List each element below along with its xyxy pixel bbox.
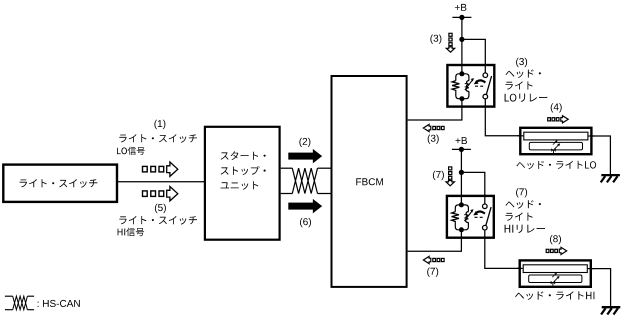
box: start-stop unit (スタート・ストップ・ユニット) — [205, 127, 280, 240]
label ライト・スイッチ (light switch) — [20, 179, 98, 188]
label (5) signal number — [155, 204, 166, 213]
lamp: headlight HI — [517, 260, 594, 286]
box: FBCM module — [332, 76, 407, 287]
label スタート・ストップ・ユニット (start stop unit) — [221, 151, 266, 160]
label (3) fuse number — [430, 35, 441, 44]
relay HI coil + contact internals — [452, 196, 492, 238]
wire +B down to LO relay coil — [461, 17, 463, 64]
label (3) ヘッド・ライトLOリレー (headlight LO relay) — [516, 58, 527, 67]
wire +B down to HI relay coil — [460, 149, 462, 195]
legend: HS-CAN twisted pair symbol — [5, 295, 13, 297]
signal flow arrow (2) unit to FBCM — [288, 153, 313, 160]
HS-CAN twisted pair bus: unit to FBCM — [281, 167, 293, 169]
signal flow arrow (8) to headlight HI — [546, 249, 549, 252]
node junction +B branch (LO) — [459, 37, 464, 42]
relay: headlight HI relay box — [447, 196, 494, 238]
wire +B branch to HI relay contact — [461, 172, 484, 195]
label ライト・スイッチ LO信号 (light switch LO signal) — [119, 134, 197, 143]
lamp: headlight LO — [518, 128, 595, 154]
fuse arrow (3) vertical — [449, 33, 452, 36]
+B power symbol (LO feed) — [455, 4, 467, 11]
signal flow arrow (1) light switch LO signal — [143, 166, 148, 172]
signal flow arrow (5) light switch HI signal — [143, 191, 148, 197]
relay: headlight LO relay box — [447, 65, 494, 107]
label (3) signal number — [428, 135, 439, 144]
wire light-switch to start-stop-unit — [117, 181, 205, 183]
label ヘッド・ライトLO (headlight LO) — [516, 161, 596, 169]
signal flow arrow (4) to headlight LO — [548, 118, 551, 121]
label (2) signal number — [299, 138, 310, 147]
label (7) ヘッド・ライトHIリレー (headlight HI relay) — [516, 188, 527, 197]
legend label : HS-CAN — [38, 300, 80, 307]
wire HI relay contact to headlight HI — [485, 238, 519, 268]
label (8) signal number — [550, 235, 561, 244]
wire +B branch to LO relay contact — [462, 39, 485, 64]
signal arrow (3) relay to FBCM — [423, 124, 430, 131]
label FBCM — [356, 178, 383, 185]
box: light switch (ライト・スイッチ) — [3, 165, 117, 202]
label (7) fuse number — [433, 171, 444, 180]
wire LO relay contact to headlight LO — [485, 107, 519, 136]
relay LO coil + contact internals — [452, 65, 492, 107]
ground (HI) — [601, 307, 620, 314]
wire headlight LO to ground — [593, 136, 611, 174]
+B power symbol (HI feed) — [456, 137, 468, 144]
wire LO relay coil return to FBCM — [408, 107, 462, 120]
node junction +B branch (HI) — [459, 170, 464, 175]
label (6) signal number — [300, 218, 311, 227]
ground (LO) — [601, 175, 620, 182]
wire HI relay coil return to FBCM — [408, 238, 462, 251]
fuse arrow (7) vertical — [449, 167, 452, 170]
label (7) signal number — [427, 268, 438, 277]
label ヘッド・ライトHI (headlight HI) — [515, 291, 594, 300]
signal arrow (7) relay to FBCM — [423, 256, 430, 263]
label (4) signal number — [551, 103, 562, 112]
label (1) signal number — [154, 120, 165, 129]
signal flow arrow (6) unit to FBCM — [288, 203, 313, 210]
label ライト・スイッチ HI信号 (light switch HI signal) — [119, 216, 197, 225]
wire headlight HI to ground — [592, 269, 611, 307]
